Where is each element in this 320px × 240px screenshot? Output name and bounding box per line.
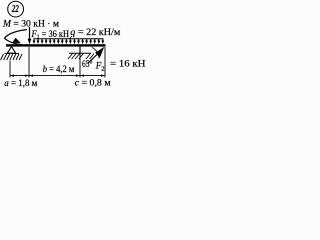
svg-text:c = 0,8 м: c = 0,8 м <box>75 78 111 88</box>
svg-text:65°: 65° <box>82 59 93 69</box>
svg-text:= 16 кН: = 16 кН <box>110 59 146 69</box>
svg-text:a = 1,8 м: a = 1,8 м <box>4 78 37 88</box>
svg-text:b = 4,2 м: b = 4,2 м <box>43 64 75 74</box>
svg-text:22: 22 <box>11 4 19 15</box>
svg-text:q = 22 кН/м: q = 22 кН/м <box>70 27 120 37</box>
svg-text:M = 30 кН · м: M = 30 кН · м <box>2 20 59 30</box>
